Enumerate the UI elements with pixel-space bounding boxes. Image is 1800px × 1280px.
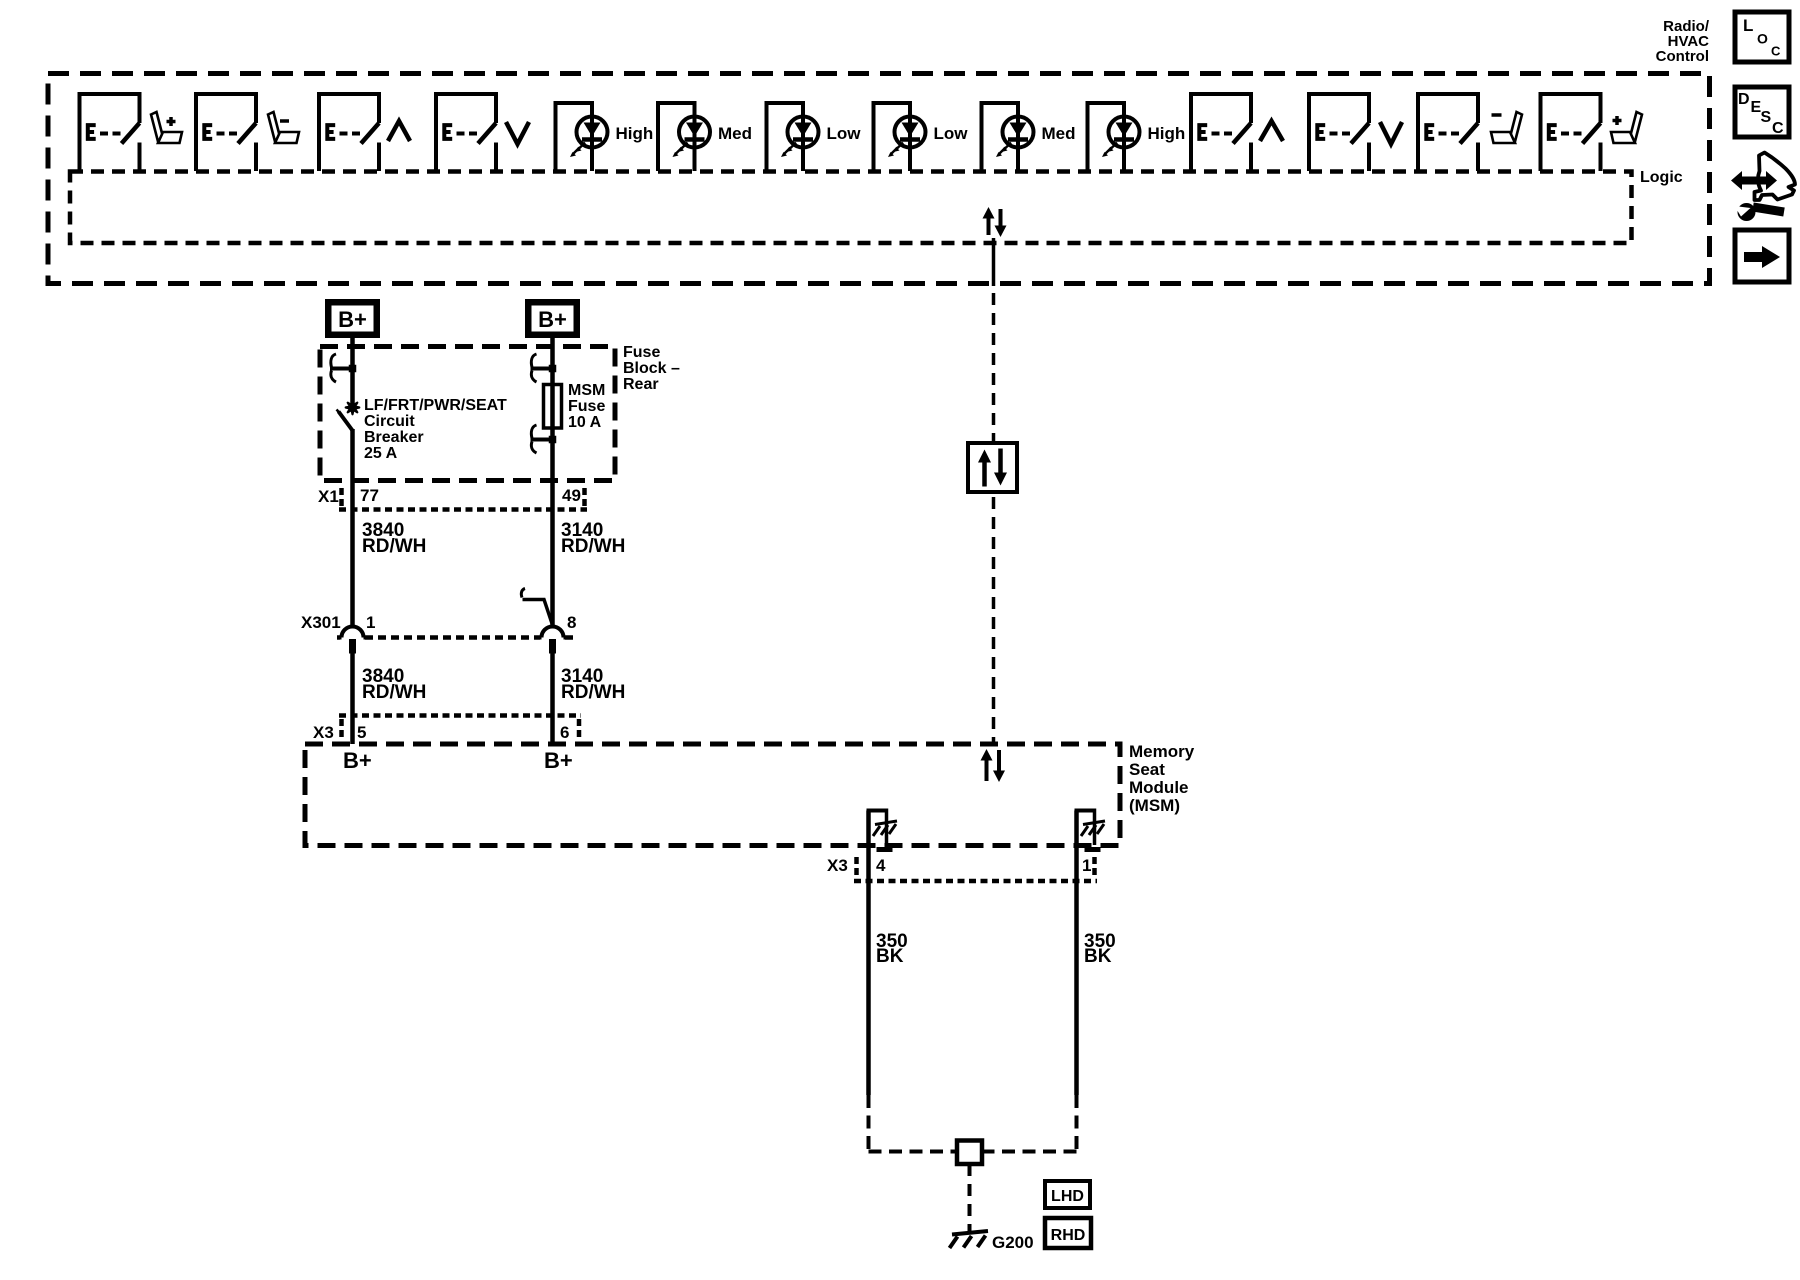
svg-text:High: High bbox=[616, 124, 654, 143]
label Med bbox=[1042, 124, 1076, 143]
svg-text:G200: G200 bbox=[992, 1233, 1034, 1252]
LED D5 Med bbox=[980, 103, 1034, 171]
chevron up bbox=[388, 121, 410, 141]
label Low bbox=[827, 124, 862, 143]
DESC callout box bbox=[1735, 87, 1789, 137]
wire label 350 BK right bbox=[1084, 931, 1116, 967]
label Logic bbox=[1640, 169, 1683, 186]
wire ground left solid bbox=[866, 811, 871, 1096]
svg-text:X3: X3 bbox=[827, 856, 848, 875]
svg-text:X3: X3 bbox=[313, 723, 334, 742]
label B+ internal left bbox=[343, 748, 372, 773]
svg-text:Control: Control bbox=[1656, 48, 1709, 65]
serial data arrows top bbox=[983, 207, 1007, 237]
label High bbox=[616, 124, 654, 143]
LHD box bbox=[1045, 1181, 1090, 1208]
wire splice to ground dashed bbox=[968, 1164, 972, 1231]
terminal hook fuse top bbox=[531, 354, 557, 382]
connector X1 bracket bbox=[339, 488, 587, 510]
svg-text:6: 6 bbox=[560, 723, 569, 742]
wire B+ feed 2 bbox=[550, 338, 555, 626]
svg-text:RD/WH: RD/WH bbox=[561, 536, 625, 557]
ground pin right in MSM bbox=[1075, 809, 1106, 850]
connector X301 arc pin 1 bbox=[339, 627, 367, 654]
label X301 bbox=[301, 613, 341, 632]
LED D3 Low bbox=[765, 103, 819, 171]
wire ground right dashed bbox=[988, 1095, 1077, 1152]
svg-text:Low: Low bbox=[934, 124, 969, 143]
label Low bbox=[934, 124, 969, 143]
svg-text:B+: B+ bbox=[338, 307, 367, 332]
pin 6 bbox=[560, 723, 569, 742]
seat icon + mirrored bbox=[1611, 112, 1642, 143]
svg-text:B+: B+ bbox=[343, 748, 372, 773]
wire label 3140 RD/WH lower bbox=[561, 666, 625, 703]
circuit breaker CB1 blade bbox=[337, 410, 353, 431]
svg-text:10 A: 10 A bbox=[568, 414, 602, 431]
label X3 bottom bbox=[827, 856, 848, 875]
pin 77 bbox=[360, 486, 379, 505]
svg-text:Breaker: Breaker bbox=[364, 429, 424, 446]
switch S2 seat down/- bbox=[194, 92, 258, 171]
LOC callout box bbox=[1735, 12, 1789, 62]
LED D1 High bbox=[554, 103, 608, 171]
svg-text:Rear: Rear bbox=[623, 376, 659, 393]
LED D2 Med bbox=[656, 103, 710, 171]
svg-text:Logic: Logic bbox=[1640, 169, 1683, 186]
B+ terminal 1 bbox=[325, 299, 380, 338]
svg-text:MSM: MSM bbox=[568, 382, 605, 399]
svg-text:BK: BK bbox=[876, 946, 904, 967]
label High bbox=[1148, 124, 1186, 143]
label X1 bbox=[318, 487, 339, 506]
svg-text:High: High bbox=[1148, 124, 1186, 143]
svg-text:4: 4 bbox=[876, 856, 886, 875]
svg-text:Med: Med bbox=[1042, 124, 1076, 143]
switch S8 seat + bbox=[1539, 92, 1603, 171]
svg-text:5: 5 bbox=[357, 723, 366, 742]
pin 8 bbox=[567, 613, 576, 632]
wire breaker to X301 bbox=[350, 429, 355, 626]
svg-text:Circuit: Circuit bbox=[364, 413, 415, 430]
svg-text:(MSM): (MSM) bbox=[1129, 796, 1180, 815]
svg-text:Seat: Seat bbox=[1129, 760, 1165, 779]
svg-text:X1: X1 bbox=[318, 487, 339, 506]
svg-text:C: C bbox=[1772, 120, 1784, 137]
wire label 3140 RD/WH upper bbox=[561, 520, 625, 557]
Memory Seat Module dashed box bbox=[305, 744, 1120, 846]
LED D6 High bbox=[1086, 103, 1140, 171]
pin 5 bbox=[357, 723, 366, 742]
switch S1 seat up/+ bbox=[78, 92, 142, 171]
fuse F1 MSM 10A bbox=[544, 385, 562, 429]
seat icon - mirrored bbox=[1491, 112, 1522, 143]
svg-text:LF/FRT/PWR/SEAT: LF/FRT/PWR/SEAT bbox=[364, 397, 507, 414]
label Fuse Block - Rear bbox=[623, 344, 680, 393]
inline terminal hook at X301 pin 8 bbox=[521, 589, 552, 626]
wire ground right solid bbox=[1074, 811, 1079, 1096]
terminal hook breaker top bbox=[330, 354, 356, 382]
wire label 3840 RD/WH lower bbox=[362, 666, 426, 703]
wire label 3840 RD/WH upper bbox=[362, 520, 426, 557]
switch S7 seat - bbox=[1416, 92, 1480, 171]
wire label 350 BK left bbox=[876, 931, 908, 967]
right arrow callout box bbox=[1735, 230, 1789, 282]
svg-text:RD/WH: RD/WH bbox=[362, 536, 426, 557]
svg-text:RHD: RHD bbox=[1051, 1227, 1086, 1244]
svg-text:77: 77 bbox=[360, 486, 379, 505]
switch S4 down chevron bbox=[434, 92, 498, 171]
splice S1 bbox=[951, 1141, 988, 1165]
svg-text:Low: Low bbox=[827, 124, 862, 143]
RHD box bbox=[1045, 1218, 1091, 1248]
connector X301 dashed line bbox=[337, 635, 578, 640]
label Radio/HVAC Control bbox=[1656, 18, 1710, 65]
label LF/FRT/PWR/SEAT Circuit Breaker 25 A bbox=[364, 397, 507, 462]
serial data arrows in MSM bbox=[981, 749, 1006, 782]
svg-text:1: 1 bbox=[366, 613, 375, 632]
svg-text:Med: Med bbox=[718, 124, 752, 143]
switch S5 up chevron bbox=[1189, 92, 1253, 171]
svg-text:Fuse: Fuse bbox=[568, 398, 605, 415]
pin 49 bbox=[562, 486, 581, 505]
label MSM Fuse 10 A bbox=[568, 382, 605, 431]
label X3 bbox=[313, 723, 334, 742]
svg-text:X301: X301 bbox=[301, 613, 341, 632]
label Memory Seat Module (MSM) bbox=[1129, 742, 1195, 815]
svg-text:B+: B+ bbox=[538, 307, 567, 332]
svg-text:D: D bbox=[1738, 91, 1750, 108]
wire serial data dashed upper bbox=[992, 293, 996, 443]
wire ground left dashed bbox=[869, 1095, 952, 1152]
label Med bbox=[718, 124, 752, 143]
chevron down bbox=[1380, 122, 1402, 144]
svg-text:1: 1 bbox=[1082, 856, 1091, 875]
seat icon - bbox=[268, 112, 299, 143]
wire X301 to X3 left bbox=[350, 653, 355, 744]
svg-text:B+: B+ bbox=[544, 748, 573, 773]
svg-text:49: 49 bbox=[562, 486, 581, 505]
svg-text:25 A: 25 A bbox=[364, 445, 398, 462]
connector X3 bottom bracket bbox=[854, 857, 1097, 881]
svg-text:RD/WH: RD/WH bbox=[561, 682, 625, 703]
svg-text:S: S bbox=[1761, 109, 1772, 126]
svg-text:L: L bbox=[1743, 16, 1753, 35]
seat icon + bbox=[151, 112, 182, 143]
connector X3 top bracket bbox=[339, 716, 581, 742]
svg-text:RD/WH: RD/WH bbox=[362, 682, 426, 703]
svg-text:C: C bbox=[1771, 44, 1781, 59]
svg-text:O: O bbox=[1757, 31, 1768, 47]
ground G200 bbox=[950, 1231, 989, 1248]
pin 1 bbox=[366, 613, 375, 632]
wire B+ feed 1 upper bbox=[350, 338, 355, 404]
wire serial data dashed lower bbox=[992, 497, 996, 744]
switch S6 down chevron bbox=[1307, 92, 1371, 171]
Fuse Block - Rear dashed box bbox=[320, 347, 615, 481]
chevron down bbox=[506, 122, 529, 144]
svg-text:BK: BK bbox=[1084, 946, 1112, 967]
Radio/HVAC Control outer dashed box bbox=[48, 74, 1710, 284]
switch S3 up chevron bbox=[317, 92, 381, 171]
svg-text:Memory: Memory bbox=[1129, 742, 1195, 761]
label B+ internal right bbox=[544, 748, 573, 773]
data link / tool icon bbox=[1731, 153, 1795, 222]
svg-text:Module: Module bbox=[1129, 778, 1189, 797]
serial data box with arrows bbox=[968, 443, 1017, 492]
connector X301 arc pin 8 bbox=[539, 627, 567, 654]
terminal hook fuse bottom bbox=[531, 425, 557, 453]
svg-text:Fuse: Fuse bbox=[623, 344, 660, 361]
B+ terminal 2 bbox=[525, 299, 580, 338]
ground pin left in MSM bbox=[867, 809, 898, 850]
LED D4 Low bbox=[872, 103, 926, 171]
circuit breaker CB1 star element bbox=[346, 401, 360, 415]
wire X301 to X3 right bbox=[550, 653, 555, 744]
chevron up bbox=[1260, 121, 1283, 141]
wire serial data solid segment bbox=[992, 238, 996, 286]
pin 4 bbox=[876, 856, 886, 875]
svg-text:Block –: Block – bbox=[623, 360, 680, 377]
svg-text:8: 8 bbox=[567, 613, 576, 632]
Logic inner dashed box bbox=[70, 172, 1632, 244]
label G200 bbox=[992, 1233, 1034, 1252]
svg-text:LHD: LHD bbox=[1051, 1188, 1084, 1205]
pin 1 bbox=[1082, 856, 1091, 875]
